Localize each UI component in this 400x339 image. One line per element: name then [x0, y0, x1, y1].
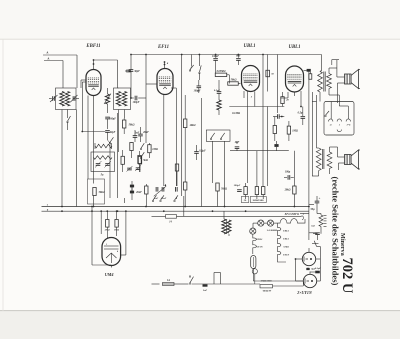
svg-text:UBL1: UBL1 — [289, 45, 301, 50]
capacitor mains — [203, 284, 208, 292]
resistor 1M g — [148, 143, 158, 158]
extension jack box — [324, 102, 354, 136]
label EF11 — [157, 45, 169, 50]
wire v263 top — [262, 55, 264, 92]
tube EF11 — [157, 69, 173, 95]
tube UBL1 a — [242, 66, 260, 92]
capacitor 100pF gl — [131, 96, 146, 104]
coil L4 — [122, 92, 126, 107]
svg-text:+: + — [319, 197, 321, 201]
output transformer T4 primary — [316, 148, 321, 171]
wire osc — [95, 143, 112, 149]
switch S8 — [220, 133, 225, 140]
wire v201 col — [200, 98, 202, 207]
label UM4 — [105, 272, 114, 277]
mains lead dash — [152, 283, 160, 285]
bus rail c — [42, 204, 309, 207]
capacitor elec2 — [309, 233, 320, 240]
resistor 1M um4 b — [115, 220, 118, 237]
capacitor 2nF left — [234, 141, 240, 151]
svg-text:1A: 1A — [167, 279, 170, 282]
svg-text:500pF: 500pF — [109, 118, 116, 121]
wire h151 — [230, 150, 289, 152]
capacitor ant couple — [125, 70, 131, 72]
labels 1M um4 — [104, 229, 119, 232]
capacitor 100pF ef — [194, 80, 202, 93]
svg-text:UY1N: UY1N — [283, 254, 289, 257]
trimmer cap C4 — [105, 161, 112, 168]
resistor 40k anode — [184, 95, 196, 182]
svg-text:2nF: 2nF — [234, 141, 240, 144]
resistor 50k top — [228, 79, 241, 86]
rectifier UY1N 2 — [303, 274, 316, 287]
caption Minerva — [339, 233, 346, 256]
wire grid return — [81, 82, 105, 132]
wire L5 — [107, 88, 109, 113]
svg-text:50kΩ: 50kΩ — [99, 191, 105, 194]
switch S4 — [140, 152, 144, 159]
wire v227 bus — [224, 141, 226, 206]
capacitor 100pF top — [212, 55, 219, 72]
label 0.1M — [232, 112, 240, 115]
oscillator coil L6 — [95, 144, 112, 148]
wire v308 long — [308, 70, 310, 240]
trimmer cap C2 — [71, 95, 80, 102]
wire psu v321 — [317, 214, 321, 234]
svg-text:2×UY1N: 2×UY1N — [296, 290, 313, 295]
svg-text:UBL1: UBL1 — [257, 238, 263, 241]
resistor 1M um4 a — [106, 220, 109, 239]
wire left EF11 — [145, 55, 147, 144]
wire x131 down — [130, 88, 132, 99]
resistor 50k cathode — [93, 188, 105, 207]
wire top rail — [131, 54, 322, 56]
svg-text:100pF: 100pF — [234, 184, 241, 187]
output transformer T4 secondary — [327, 152, 332, 169]
svg-text:UY1N: UY1N — [256, 246, 262, 249]
svg-text:1MΩ/1MΩ: 1MΩ/1MΩ — [253, 200, 264, 202]
svg-text:100pF: 100pF — [194, 90, 201, 93]
capacitor coupling — [273, 114, 284, 119]
wire v110 down — [109, 150, 111, 198]
wire um4 gnd — [91, 206, 111, 268]
wire T4 bottom — [312, 169, 330, 177]
wire speaker2 leads — [338, 147, 345, 170]
wire rect right — [316, 247, 321, 282]
NTC resistor — [312, 241, 319, 247]
svg-text:50kΩ: 50kΩ — [231, 79, 237, 82]
label UBL1 second — [289, 45, 301, 50]
wire mains risers — [214, 273, 221, 285]
antenna terminal A1 — [43, 51, 77, 89]
switch S5 — [189, 65, 193, 71]
band switch S2 — [108, 137, 114, 150]
resistor 50 screen — [266, 70, 275, 77]
svg-text:0.05MΩ: 0.05MΩ — [217, 70, 226, 73]
svg-text:UBL1: UBL1 — [283, 238, 289, 241]
output transformer T3 secondary — [327, 74, 332, 89]
svg-text:EBF11: EBF11 — [85, 44, 100, 49]
wire um4 heater link — [253, 280, 303, 282]
wire v312 col — [312, 92, 314, 176]
label EBF11 — [85, 44, 100, 49]
resistor trio b — [255, 151, 258, 199]
caption 702U — [339, 258, 355, 294]
label 3x1200 — [267, 229, 278, 232]
capacitor 10nF ubl1b — [304, 69, 311, 72]
wire v263 — [262, 92, 264, 187]
svg-text:20nF: 20nF — [135, 191, 142, 194]
dial lamp 2 — [267, 220, 273, 226]
jack contact 3 — [346, 119, 351, 127]
coil small mid — [217, 94, 221, 115]
tube UBL1 b — [286, 66, 304, 92]
wire ef g2 — [171, 88, 176, 163]
wire v181 — [181, 55, 183, 197]
svg-text:1MΩ: 1MΩ — [114, 229, 119, 232]
heater chain right — [278, 223, 287, 262]
svg-text:0.5μF: 0.5μF — [214, 89, 221, 92]
svg-text:UBL1: UBL1 — [244, 44, 256, 49]
resistor 50k osc — [123, 120, 135, 128]
wire EF11 grid link — [146, 83, 157, 85]
capacitor trio — [234, 184, 242, 191]
svg-text:665Ω/W: 665Ω/W — [263, 290, 272, 293]
T3 core — [324, 72, 325, 92]
junction dots bus — [61, 206, 310, 213]
coil L3 — [116, 92, 120, 107]
volume pot — [154, 184, 167, 200]
label box 50 — [241, 197, 249, 203]
resistor mains dropper — [311, 215, 326, 228]
svg-text:100pF: 100pF — [133, 101, 140, 104]
svg-text:A: A — [46, 57, 49, 61]
capacitor 0.5u right — [298, 107, 305, 126]
oscillator coil box — [91, 152, 115, 172]
capacitor 20nF ef — [138, 127, 149, 142]
svg-text:1×1200ΩΔ: 1×1200ΩΔ — [267, 229, 278, 232]
jack bottom hook — [337, 130, 341, 132]
svg-text:1MΩ: 1MΩ — [152, 148, 158, 151]
svg-text:5kΩ: 5kΩ — [143, 159, 148, 162]
wire T4 top — [317, 147, 338, 152]
tube UM4 — [102, 238, 121, 266]
capacitor 2nF osc — [133, 130, 140, 142]
resistor 4.5 box — [175, 164, 178, 186]
svg-text:Minerva: Minerva — [339, 233, 346, 256]
wire rect left — [295, 258, 304, 281]
speaker 1 — [345, 70, 361, 89]
capacitor mains out — [310, 267, 321, 273]
fuse 1A — [163, 279, 175, 286]
svg-text:100μ: 100μ — [285, 171, 291, 174]
svg-text:A: A — [45, 51, 48, 55]
svg-text:EF11: EF11 — [157, 45, 169, 50]
junction dots rail — [93, 54, 264, 63]
svg-text:0.1μF: 0.1μF — [315, 267, 321, 270]
T4 core — [323, 149, 324, 169]
svg-text:1: 1 — [339, 125, 340, 127]
box 50 — [138, 156, 141, 172]
switch S7 — [210, 133, 215, 140]
svg-text:1=E: 1=E — [347, 125, 351, 127]
label 5a — [101, 174, 104, 177]
wire v176 extend — [175, 163, 177, 186]
wire ubl1a pins — [244, 91, 255, 183]
svg-text:20nF: 20nF — [142, 131, 149, 134]
mains switch — [189, 276, 193, 285]
resistor 20k g2 — [281, 92, 290, 107]
capacitor 100u — [284, 171, 294, 180]
resistor 40k b — [184, 182, 187, 207]
jack switch — [325, 111, 329, 117]
EBF11 cathode wire — [93, 96, 95, 184]
heater hump UBL1 left — [253, 237, 263, 254]
svg-text:702 U: 702 U — [339, 258, 355, 294]
wire v277 grid — [276, 55, 278, 114]
wire left col — [312, 95, 317, 148]
wire um4 right — [121, 254, 126, 256]
heater labels right — [283, 230, 289, 257]
wave switch row S9 — [152, 195, 184, 216]
wire top rail drop — [321, 55, 323, 72]
wire mains 1 — [174, 283, 189, 285]
wire T3 top — [320, 68, 337, 74]
wire v267 top — [267, 55, 269, 92]
capacitor 60pF — [105, 131, 115, 140]
capacitor 50nF dark — [274, 141, 278, 151]
capacitor 8uF — [306, 268, 316, 271]
resistor 50k tone — [216, 183, 227, 207]
wire speaker1 leads — [332, 60, 345, 103]
svg-text:1MΩ: 1MΩ — [292, 130, 298, 133]
capacitor pot right — [175, 187, 178, 200]
wire mains 3 — [273, 281, 304, 286]
wire v301 — [300, 101, 302, 107]
oscillator coil L7 — [94, 156, 113, 160]
label 2xUY1N — [296, 290, 313, 295]
svg-text:20kΩ: 20kΩ — [284, 189, 291, 192]
capacitor 5nF sw — [135, 166, 141, 172]
resistor trio c — [262, 186, 265, 199]
dial lamp 1 — [258, 220, 264, 226]
svg-text:UBL1: UBL1 — [283, 230, 289, 233]
capacitor 05u mid — [214, 80, 221, 93]
wire ubl1b pins — [281, 91, 301, 101]
wire osc col — [118, 113, 125, 203]
svg-text:kΩ: kΩ — [311, 225, 314, 228]
EBF11 top cap wire — [93, 60, 118, 88]
wire v267 — [267, 107, 269, 187]
label 17k 5600 — [260, 280, 272, 283]
wire lamp rail — [253, 223, 278, 237]
coil L2 — [65, 92, 69, 107]
wire coil to gnd — [62, 110, 68, 207]
wire um4 left — [100, 219, 102, 234]
svg-text:100pF: 100pF — [212, 55, 219, 58]
switch S6 — [199, 65, 202, 73]
variable coil L5 — [104, 94, 111, 105]
wire v76 bus — [76, 110, 78, 207]
band switch S1 — [67, 116, 71, 130]
svg-text:60pF: 60pF — [110, 131, 116, 134]
EF11 cathode col — [163, 95, 165, 187]
resistor 1M c2 — [287, 121, 298, 141]
antenna coil box — [56, 88, 77, 110]
capacitor 0.2u — [194, 145, 206, 160]
trimmer cap C5 — [127, 166, 133, 172]
EF11 top cap — [164, 62, 169, 69]
capacitor 8nF top — [236, 55, 241, 66]
wire psu h — [300, 205, 314, 214]
speaker 2 — [345, 150, 361, 169]
wire x117.5 join — [118, 87, 119, 89]
capacitor 20nF dark — [130, 185, 142, 200]
caption rechte Seite — [330, 177, 340, 286]
coil L1 — [60, 92, 64, 107]
wire T2 down — [119, 110, 125, 153]
wire v88 col — [81, 80, 88, 179]
svg-text:50μ: 50μ — [310, 208, 315, 211]
svg-text:50kΩ: 50kΩ — [129, 124, 135, 127]
resistor 1M c1 — [273, 117, 276, 142]
resistor trio a — [244, 183, 247, 199]
wire um4 feeds — [101, 211, 126, 255]
resistor 0.05M — [215, 70, 227, 77]
wire jack internals — [331, 102, 348, 120]
wire res link — [216, 71, 230, 81]
svg-text:5nF: 5nF — [203, 289, 208, 292]
resistor 20k psu — [284, 151, 297, 207]
jack contact 2 — [337, 119, 341, 127]
svg-text:UM4: UM4 — [105, 272, 114, 277]
IF transformer T2 box — [114, 88, 131, 110]
pilot neon — [252, 269, 257, 284]
svg-text:1MΩ: 1MΩ — [104, 229, 109, 232]
resistor snub — [309, 72, 312, 80]
svg-text:0.1MΩ: 0.1MΩ — [232, 112, 240, 115]
resistor 1M osc — [130, 142, 133, 158]
wire h131 — [129, 70, 132, 72]
svg-text:0.2μF: 0.2μF — [199, 150, 206, 153]
output transformer T3 primary — [318, 72, 323, 93]
wire tone down — [212, 141, 214, 183]
label UBL1 first — [244, 44, 256, 49]
capacitor 8nF dark — [130, 181, 134, 193]
resistor box mid — [121, 150, 124, 172]
label box 1M1M — [250, 197, 266, 203]
switch S3 — [140, 143, 144, 150]
wire mains 2 — [192, 283, 261, 285]
padder box — [88, 179, 105, 204]
resistor 1M av — [145, 184, 148, 207]
svg-text:0.5μ: 0.5μ — [298, 112, 303, 115]
wire x124 — [123, 118, 125, 134]
trimmer cap C1 — [49, 95, 58, 102]
choke below bus — [222, 211, 231, 236]
jack contact 1 — [329, 119, 333, 127]
svg-text:(rechte Seite des Schaltbildes: (rechte Seite des Schaltbildes) — [330, 177, 340, 286]
resistor 50k b — [138, 151, 148, 172]
trimmer cap C3 — [95, 161, 102, 168]
capacitor 50u elec — [310, 196, 320, 214]
resistor 665 — [260, 285, 273, 293]
wire T3 bottom — [320, 89, 339, 102]
stub rail 14 — [152, 213, 305, 224]
capacitor 30pF — [129, 55, 140, 89]
antenna terminal A2 — [44, 57, 63, 89]
dial lamp 3 — [250, 228, 256, 234]
heater EF11 EBF11 wavy — [278, 213, 306, 223]
svg-text:1: 1 — [106, 244, 107, 246]
svg-text:UM4: UM4 — [283, 246, 289, 249]
wire v191 — [191, 55, 193, 67]
capacitor 500pF — [105, 117, 116, 129]
ballast tube — [251, 256, 256, 282]
svg-text:EF11 EBF11: EF11 EBF11 — [284, 213, 300, 216]
tone switch box — [206, 130, 230, 141]
rectifier UY1N 1 — [302, 252, 315, 265]
bus rail a — [42, 208, 309, 211]
wire rect top — [309, 248, 310, 274]
svg-text:30pF: 30pF — [133, 70, 140, 73]
wire v199 — [198, 55, 200, 81]
wire h106 — [229, 106, 284, 108]
svg-text:50kΩ: 50kΩ — [221, 188, 227, 191]
svg-text:40kΩ: 40kΩ — [189, 124, 196, 127]
tube EBF11 — [86, 70, 101, 96]
